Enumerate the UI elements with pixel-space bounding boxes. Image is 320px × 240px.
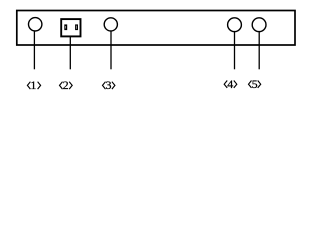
label <4> — [224, 77, 237, 91]
label <2> — [60, 78, 73, 92]
leader line 1 — [33, 31, 35, 69]
socket slot left — [65, 25, 67, 30]
socket slot right — [76, 25, 78, 30]
label <1> — [27, 78, 40, 92]
connector jack 5 — [252, 18, 266, 32]
svg-text:3: 3 — [106, 78, 112, 92]
leader line 4 — [234, 32, 236, 70]
svg-text:4: 4 — [227, 77, 233, 91]
leader line 2 — [69, 37, 71, 70]
connector jack 1 — [29, 18, 42, 31]
power inlet socket outline — [61, 19, 80, 36]
connector jack 4 — [228, 18, 242, 32]
label <5> — [249, 77, 261, 91]
connector jack 3 — [104, 18, 117, 31]
label <3> — [103, 78, 115, 92]
svg-text:1: 1 — [30, 78, 36, 92]
leader line 3 — [110, 31, 112, 69]
panel outline — [17, 11, 295, 46]
leader line 5 — [258, 32, 260, 70]
svg-text:2: 2 — [63, 78, 69, 92]
svg-text:5: 5 — [252, 77, 258, 91]
